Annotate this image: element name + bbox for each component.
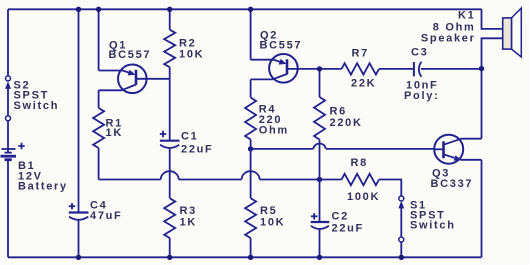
transistor Q2 BC557: [251, 30, 320, 83]
svg-text:R8: R8: [351, 157, 368, 169]
resistor R4 220 Ohm: [245, 98, 289, 140]
svg-text:1K: 1K: [106, 127, 123, 139]
battery B1: [1, 143, 68, 193]
transistor Q1 BC557: [99, 40, 170, 94]
svg-text:R2: R2: [179, 37, 196, 49]
wire feedback net y=179.5 with hops: [99, 179, 342, 181]
wire R2 top from V+: [169, 9, 171, 29]
switch S1: [398, 196, 455, 242]
svg-text:BC557: BC557: [109, 49, 152, 61]
node V+ top rail wire: [8, 8, 482, 10]
wire Q1 collector to R1: [98, 90, 100, 108]
wire battery to ground rail: [7, 160, 9, 258]
svg-text:Ohm: Ohm: [259, 125, 289, 137]
svg-text:1K: 1K: [180, 217, 197, 229]
svg-text:10K: 10K: [260, 217, 285, 229]
svg-text:220K: 220K: [330, 117, 363, 129]
capacitor C1 22uF: [160, 131, 214, 156]
wire Q3 emitter to ground rail: [481, 160, 483, 257]
svg-text:C2: C2: [332, 211, 349, 223]
svg-text:47uF: 47uF: [90, 210, 122, 222]
loudspeaker K1: [421, 8, 521, 57]
node junction R6/C2/R8: [317, 177, 322, 182]
resistor R8 100K: [342, 157, 381, 203]
wire hop arc over x=250.6: [242, 171, 260, 179]
wire node A to R5: [250, 149, 252, 198]
svg-text:BC337: BC337: [431, 178, 474, 190]
wire C3 to Q3 collector net: [421, 68, 482, 70]
svg-text:Speaker: Speaker: [421, 33, 476, 45]
resistor R3 1K: [164, 198, 197, 238]
wire C4 to ground: [78, 220, 80, 258]
svg-text:22uF: 22uF: [181, 144, 213, 156]
wire Q2 base to R7: [320, 68, 342, 70]
wire R3 to ground: [169, 238, 171, 257]
wire R6 bottom under hop to junction: [319, 140, 321, 180]
wire C4 branch upper: [78, 9, 80, 212]
wire left rail upper (V+ to S2): [7, 9, 9, 76]
svg-text:R7: R7: [352, 48, 369, 60]
wire R1 bottom to feedback net: [98, 148, 100, 180]
svg-text:C1: C1: [181, 131, 198, 143]
wire S2 to battery: [7, 121, 9, 153]
svg-text:Switch: Switch: [14, 100, 60, 112]
wire R5 to ground: [250, 238, 252, 257]
svg-text:Battery: Battery: [18, 181, 68, 193]
wire S1 to ground: [400, 242, 402, 257]
svg-text:22K: 22K: [351, 78, 376, 90]
svg-text:R3: R3: [180, 205, 197, 217]
capacitor C2 22uF: [311, 211, 364, 235]
wire Q1 base node down to C1: [169, 79, 171, 141]
node dots top rail: [76, 7, 81, 12]
node dots ground rail: [76, 255, 81, 260]
node A junction R4/R5/Q3 base: [248, 146, 253, 151]
resistor R5 10K: [245, 198, 285, 238]
wire R7 to C3: [379, 68, 414, 70]
svg-text:Poly:: Poly:: [404, 90, 439, 102]
capacitor C4 47uF: [69, 200, 123, 223]
wire R4 bottom to node A: [250, 140, 252, 149]
wire Q1 emitter column from V+: [98, 9, 100, 70]
wire hop arc over x=169.7: [161, 171, 179, 179]
svg-text:100K: 100K: [347, 191, 380, 203]
wire junction down to C2: [319, 180, 321, 223]
wire C2 to ground: [319, 229, 321, 257]
wire Q2 emitter column from V+: [250, 9, 252, 59]
resistor R1 1K: [93, 108, 123, 148]
node ground bottom rail wire: [8, 256, 482, 258]
wire R2 bottom to Q1 base node: [169, 67, 171, 79]
wire R8 to S1: [379, 180, 401, 197]
transistor Q3 BC337: [431, 135, 482, 190]
capacitor C3 10nF Poly: [404, 47, 439, 103]
svg-text:10K: 10K: [179, 49, 204, 61]
svg-text:R6: R6: [330, 106, 347, 118]
resistor R7 22K: [342, 48, 380, 90]
svg-text:C3: C3: [411, 47, 428, 59]
wire Q3 base from node A with hop over R6 column: [251, 148, 435, 150]
wire Q2 collector to R4: [250, 79, 252, 97]
wire V+ rail corner down to speaker top: [482, 9, 503, 29]
svg-text:K1: K1: [458, 10, 475, 22]
wire hop arc over x=319.5: [313, 143, 326, 148]
node junction C3/speaker/Q3 collector: [479, 66, 484, 71]
svg-text:22uF: 22uF: [332, 223, 364, 235]
svg-text:BC557: BC557: [260, 40, 303, 52]
svg-text:R5: R5: [260, 205, 277, 217]
svg-text:Switch: Switch: [410, 220, 456, 232]
wire speaker bottom to Q3 collector: [482, 38, 503, 138]
node Q2 base junction dot: [317, 66, 322, 71]
wire Q2 base node to R6: [319, 69, 321, 97]
resistor R6 220K: [314, 97, 363, 140]
switch S2: [5, 76, 59, 121]
resistor R2 10K: [164, 30, 204, 67]
wire C1 bottom to R3: [169, 148, 171, 198]
